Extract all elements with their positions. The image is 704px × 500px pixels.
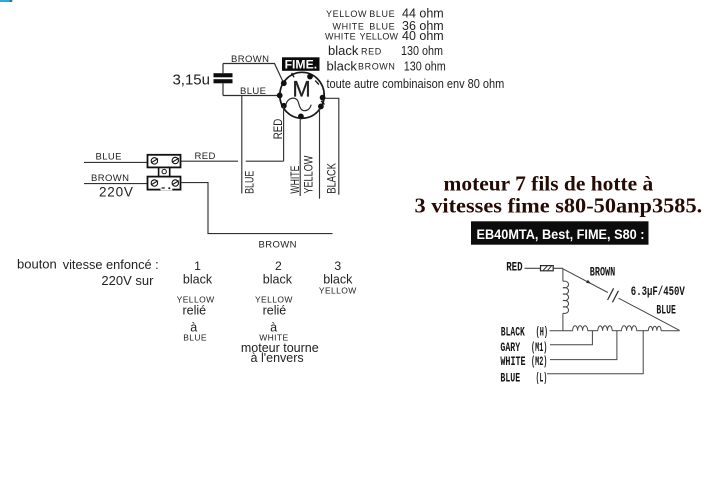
resistance table row5 [327, 58, 446, 73]
svg-text:BLUE: BLUE [96, 151, 122, 162]
svg-text:YELLOW: YELLOW [360, 31, 399, 41]
svg-text:relié: relié [182, 304, 206, 318]
column 2 relié [263, 304, 287, 318]
resistance table row6 [327, 77, 505, 91]
column 2 moteur tourne [241, 341, 319, 355]
svg-text:RED: RED [195, 151, 216, 162]
svg-text:black: black [263, 273, 293, 287]
motor brush tick top-right [315, 81, 319, 85]
svg-text:black: black [327, 58, 358, 73]
motor brush tick top-left [292, 73, 295, 78]
right schematic: wire BROWN diagonal upper [563, 269, 608, 293]
right schematic: wire coil to bus [562, 313, 564, 330]
svg-text:BLUE: BLUE [183, 332, 207, 342]
resistance table row3 [325, 29, 444, 43]
scan artifact cyan bar top-left [0, 0, 12, 2]
svg-text:(M2): (M2) [531, 355, 547, 369]
label YELLOW (vertical) [303, 155, 315, 193]
label BLACK (vertical) [327, 163, 339, 194]
switch SW1 top block [148, 155, 181, 168]
svg-text:BLACK: BLACK [327, 163, 339, 194]
column 1 heading [194, 259, 201, 273]
EB40MTA black banner [471, 221, 649, 244]
right schematic: label BLACK (H) [501, 326, 548, 340]
resistance table row1 [326, 7, 444, 21]
svg-text:toute autre combinaison env 80: toute autre combinaison env 80 ohm [327, 77, 505, 91]
label RED (near switch) [195, 151, 216, 162]
svg-text:(L): (L) [536, 372, 548, 386]
wire BLACK motor right and down [325, 98, 339, 195]
column 1 BLUE [183, 332, 207, 342]
svg-text:BLACK: BLACK [501, 326, 525, 340]
svg-text:130 ohm: 130 ohm [404, 59, 446, 73]
svg-text:BLUE: BLUE [656, 303, 675, 317]
svg-text:GARY: GARY [500, 341, 520, 355]
right schematic: primary coil L1 vertical [563, 281, 569, 313]
column 1 relié [182, 304, 206, 318]
capacitor C1 top lead [222, 64, 224, 74]
column 1 black [183, 273, 213, 287]
switch SW1 screw top-right [172, 157, 179, 163]
column 2 black [263, 273, 293, 287]
resistance table row2 [333, 19, 444, 33]
FIME label box [282, 57, 320, 71]
capacitor C1 bottom lead [222, 83, 224, 95]
motor terminal dot top-left [281, 80, 287, 86]
label WHITE (vertical) [290, 165, 302, 193]
svg-text:BROWN: BROWN [259, 240, 297, 251]
right schematic: thermal fuse F1 [541, 266, 554, 271]
column 2 heading [275, 259, 282, 273]
svg-text:BROWN: BROWN [590, 265, 615, 279]
motor terminal dot top [307, 74, 313, 80]
motor terminal dot bottom [298, 114, 304, 120]
column 1 YELLOW [177, 295, 215, 305]
note 220V sur [101, 273, 154, 288]
svg-text:130 ohm: 130 ohm [401, 44, 443, 58]
svg-text:BROWN: BROWN [358, 62, 396, 72]
switch SW1 screw bottom-right [172, 180, 179, 186]
svg-text:2: 2 [275, 259, 282, 273]
label BROWN mains [91, 173, 129, 184]
svg-text:WHITE: WHITE [333, 21, 365, 31]
label BLUE (above wire) [240, 86, 266, 97]
switch SW1 middle bridges [159, 167, 170, 176]
wire BLUE mains lead-in [84, 161, 147, 163]
svg-text:RED: RED [506, 261, 523, 275]
motor U1 winding wave [286, 98, 311, 111]
svg-text:3,15u: 3,15u [172, 72, 210, 89]
right schematic: label GARY (M1) [500, 341, 547, 355]
column 1 à [190, 321, 197, 335]
svg-text:BLUE: BLUE [500, 372, 520, 386]
svg-text:BLUE: BLUE [369, 9, 395, 19]
svg-text:black: black [323, 273, 353, 287]
right schematic: tap L [547, 331, 643, 374]
right schematic: label WHITE (M2) [500, 355, 547, 369]
right schematic: wire BLUE diagonal lower [619, 298, 680, 330]
wire BLUE vertical drop [241, 96, 243, 194]
svg-text:YELLOW: YELLOW [326, 9, 367, 19]
svg-text:(M1): (M1) [531, 341, 547, 355]
svg-text:BLUE: BLUE [244, 170, 256, 193]
svg-text:relié: relié [263, 304, 287, 318]
svg-text:bouton: bouton [17, 256, 57, 271]
svg-text:40 ohm: 40 ohm [402, 29, 444, 43]
motor U1 body circle [280, 72, 324, 118]
label BROWN (bottom) [259, 240, 297, 251]
svg-text:YELLOW: YELLOW [303, 155, 315, 193]
wire YELLOW motor down [319, 109, 321, 199]
wire WHITE motor down [299, 118, 301, 196]
label BLUE (vertical) [244, 170, 256, 193]
svg-text:RED: RED [273, 119, 285, 140]
wire BLUE capacitor to motor [223, 95, 280, 97]
svg-text:RED: RED [361, 46, 382, 56]
capacitor C1 plates [214, 73, 233, 83]
motor brush tick bottom-right [321, 101, 324, 105]
switch SW1 screw bottom-left [151, 180, 158, 186]
column 2 à l'envers [251, 351, 304, 365]
svg-text:FIME.: FIME. [285, 59, 318, 71]
right schematic: label RED [506, 261, 523, 275]
switch SW1 bottom block [148, 177, 181, 190]
svg-text:BROWN: BROWN [231, 54, 269, 65]
switch SW1 center pivot circle [162, 169, 166, 173]
wire BROWN switch to bottom run [181, 183, 333, 234]
note bouton vitesse line [17, 256, 159, 271]
svg-text:à l'envers: à l'envers [251, 351, 304, 365]
right schematic: label BLUE diagonal [656, 303, 675, 317]
right schematic: arrow on diagonal [586, 280, 591, 284]
right schematic: label 6.3uF/450V [631, 285, 685, 299]
switch SW1 screw top-left [151, 158, 158, 164]
wire RED horizontal to switch [181, 160, 284, 162]
column 3 heading [334, 259, 341, 273]
svg-text:YELLOW: YELLOW [319, 286, 357, 296]
svg-text:220V sur: 220V sur [101, 273, 154, 288]
right schematic: tap M1 [550, 331, 592, 345]
column 2 à [270, 321, 277, 335]
label BLUE mains [96, 151, 122, 162]
svg-text:black: black [328, 43, 359, 58]
column 2 WHITE [259, 332, 288, 342]
svg-text:WHITE: WHITE [290, 165, 302, 193]
svg-text:220V: 220V [99, 185, 134, 200]
right schematic: capacitor C2 plates [608, 288, 619, 302]
motor terminal dot bottom-left [281, 103, 287, 109]
capacitor C1 value 3,15u [172, 72, 210, 89]
motor terminal dot bottom-right [318, 104, 324, 110]
svg-text:BLUE: BLUE [369, 21, 395, 31]
heading line 2 [415, 193, 703, 217]
right schematic: label BLUE (L) [500, 372, 547, 386]
motor terminal dot left [277, 93, 283, 99]
right schematic: tap M2 [550, 331, 617, 360]
column 3 black [323, 273, 353, 287]
right schematic: label BROWN [590, 265, 615, 279]
column 3 YELLOW [319, 286, 357, 296]
wire BROWN capacitor to motor [223, 64, 284, 84]
svg-text:(H): (H) [536, 326, 548, 340]
column 2 YELLOW [255, 295, 293, 305]
svg-text:BROWN: BROWN [91, 173, 129, 184]
right schematic: bus line with winding coils [550, 326, 680, 331]
svg-text:3: 3 [334, 259, 341, 273]
svg-text:WHITE: WHITE [500, 355, 525, 369]
resistance table row4 [328, 43, 443, 58]
label 220V [99, 185, 134, 200]
svg-text:BLUE: BLUE [240, 86, 266, 97]
svg-text:black: black [183, 273, 213, 287]
svg-text:WHITE: WHITE [325, 31, 356, 41]
svg-text:1: 1 [194, 259, 201, 273]
switch SW1 bottom notch [161, 185, 173, 191]
motor U1 letter M [292, 77, 310, 102]
right schematic: wire junction down [562, 268, 564, 281]
motor terminal dot right [320, 95, 326, 101]
heading line 1 [444, 171, 654, 195]
svg-text:6.3µF/450V: 6.3µF/450V [631, 285, 685, 299]
svg-text:vitesse enfoncé :: vitesse enfoncé : [63, 257, 159, 272]
label RED (vertical) [273, 119, 285, 140]
svg-text:moteur 7 fils de hotte à: moteur 7 fils de hotte à [444, 171, 654, 195]
right schematic: wire RED to fuse [525, 267, 541, 269]
label BROWN (top) [231, 54, 269, 65]
svg-text:3 vitesses fime s80-50anp3585.: 3 vitesses fime s80-50anp3585. [415, 193, 703, 217]
svg-text:EB40MTA, Best, FIME, S80 :: EB40MTA, Best, FIME, S80 : [477, 227, 645, 242]
wire RED motor down [283, 106, 285, 161]
wire BROWN mains lead-in [84, 183, 147, 185]
right schematic: wire fuse to junction [553, 267, 563, 269]
